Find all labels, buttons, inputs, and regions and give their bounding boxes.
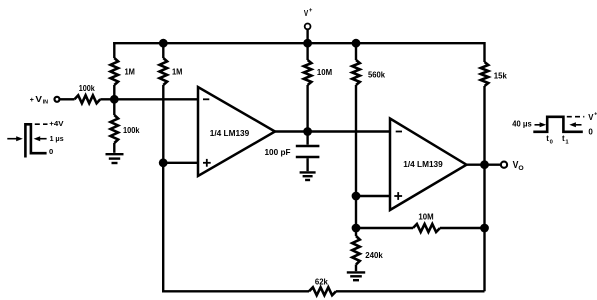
svg-text:0: 0 — [550, 139, 553, 145]
svg-text:1/4 LM139: 1/4 LM139 — [403, 159, 443, 169]
svg-text:100k: 100k — [123, 125, 140, 135]
svg-text:IN: IN — [43, 100, 49, 106]
svg-text:+: + — [30, 97, 34, 104]
svg-text:0: 0 — [49, 147, 53, 156]
svg-text:15k: 15k — [494, 70, 507, 80]
svg-text:V: V — [35, 94, 42, 104]
svg-text:100 pF: 100 pF — [265, 147, 291, 157]
svg-text:62k: 62k — [315, 276, 328, 286]
svg-text:+: + — [309, 8, 313, 14]
svg-text:10M: 10M — [317, 67, 332, 77]
svg-text:0: 0 — [588, 127, 593, 136]
svg-text:1M: 1M — [172, 67, 182, 77]
svg-text:O: O — [518, 165, 523, 172]
svg-text:1 μs: 1 μs — [50, 134, 64, 143]
svg-text:1M: 1M — [125, 67, 135, 77]
svg-text:240k: 240k — [365, 250, 383, 260]
svg-text:1/4 LM139: 1/4 LM139 — [210, 128, 250, 138]
svg-text:1: 1 — [565, 139, 569, 145]
svg-text:10M: 10M — [418, 211, 433, 221]
svg-text:560k: 560k — [368, 69, 385, 79]
svg-text:100k: 100k — [79, 83, 95, 93]
svg-text:V: V — [588, 112, 593, 122]
svg-text:40 μs: 40 μs — [512, 120, 532, 129]
svg-text:+4V: +4V — [49, 119, 64, 128]
